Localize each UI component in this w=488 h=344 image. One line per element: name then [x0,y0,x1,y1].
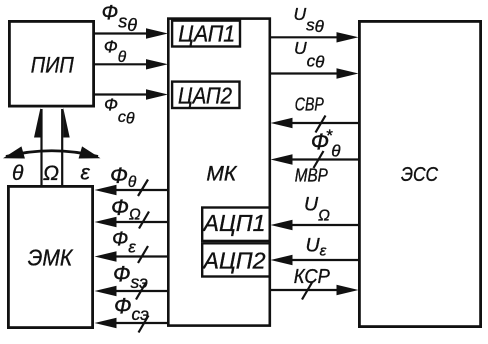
block ESS box [359,21,480,326]
wire Phi_c_theta PIP to MK [94,93,148,95]
block PIP box [9,21,93,106]
arrowhead U_epsilon [271,255,293,265]
svg-text:КСР: КСР [294,266,331,288]
block CAP1 box [172,21,240,47]
svg-text:ЦАП1: ЦАП1 [178,21,235,47]
arrowhead Phi_Omega to EMK [95,217,117,227]
half arrowhead theta shaft [34,108,41,138]
bus slash KSR [302,283,312,300]
block EMK box [8,186,92,327]
shaft theta axis EMK to PIP [40,109,42,186]
arrowhead U_s_theta [337,32,359,42]
wire Phi_c_e MK to EMK [116,322,169,324]
arrowhead Phi*theta [271,154,293,164]
wire U_c_theta MK to ESS [270,72,339,74]
arrowhead Phi_s_e to EMK [95,286,117,296]
arc arrowhead right [79,146,103,164]
svg-text:МК: МК [206,163,237,186]
arrowhead Phi_theta top [146,59,168,69]
wire Phi_theta PIP to MK [94,63,148,65]
arrowhead Phi_c_theta [146,89,168,99]
svg-text:Ω: Ω [43,162,59,185]
wire SVR ESS to MK [291,122,360,124]
bus slash Phi_Omega [139,212,149,229]
half arrowhead epsilon shaft [63,108,69,138]
wire Phi_s_e MK to EMK [116,290,169,292]
rotation arc double arrow [6,151,98,157]
bus slash Phi_theta [138,180,148,197]
bus slash Phi_epsilon [138,246,148,263]
svg-text:ЦАП2: ЦАП2 [178,83,232,109]
svg-text:АЦП1: АЦП1 [201,210,265,236]
wire U_epsilon ESS to ACP2 [292,259,361,261]
svg-text:МВР: МВР [295,166,328,186]
block ACP1 box [202,208,270,241]
svg-text:θ: θ [12,162,24,185]
arrowhead Phi_theta to EMK [95,185,117,195]
arrowhead Phi_epsilon to EMK [95,251,117,261]
wire Phi*theta ESS to MK [291,158,360,160]
svg-text:ε: ε [81,162,91,185]
arrowhead U_c_theta [337,68,359,78]
wire Phi_theta MK to EMK [116,189,169,191]
arrowhead Phi_s_theta [146,28,168,38]
wire Phi_Omega MK to EMK [116,221,169,223]
arrowhead U_Omega [271,220,293,230]
svg-text:ЭСС: ЭСС [401,164,438,186]
block ACP2 box [202,243,270,276]
arrowhead KSR [337,285,359,295]
bus slash Phi_s_e [136,283,146,300]
svg-text:СВР: СВР [295,95,324,115]
arrowhead SVR [271,118,293,128]
wire Phi_s_theta PIP to MK [94,32,148,34]
block MK box [168,19,269,326]
svg-text:АЦП2: АЦП2 [201,248,265,274]
wire KSR MK to ESS [270,289,338,291]
wire U_s_theta MK to ESS [270,36,339,38]
wire Phi_epsilon MK to EMK [116,255,169,257]
arrowhead Phi_c_e to EMK [95,318,117,328]
bus slash Phi_c_e [139,316,149,333]
shaft epsilon axis EMK to PIP [61,109,63,186]
wire U_Omega ESS to ACP1 [292,224,361,226]
svg-text:ЭМК: ЭМК [28,245,74,271]
bus slash SVR [316,116,326,133]
arc arrowhead left [1,146,25,164]
block CAP2 box [172,82,239,108]
bus slash Phi*theta [314,151,324,168]
svg-text:ПИП: ПИП [31,53,75,78]
